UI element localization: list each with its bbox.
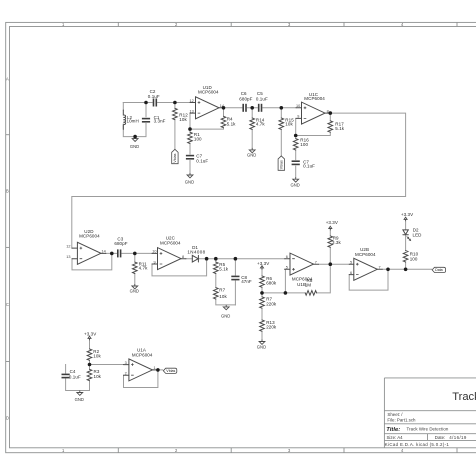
svg-text:File: Part1.sch: File: Part1.sch: [387, 417, 416, 422]
svg-text:10k: 10k: [179, 117, 187, 122]
svg-text:220k: 220k: [266, 325, 277, 330]
svg-text:0.1uF: 0.1uF: [148, 94, 160, 99]
svg-text:GND: GND: [75, 397, 84, 402]
svg-text:MCP6004: MCP6004: [304, 96, 325, 101]
svg-text:9: 9: [154, 260, 156, 264]
svg-text:5: 5: [350, 261, 352, 265]
svg-text:Track Wire Detection: Track Wire Detection: [407, 427, 449, 432]
svg-text:+3.3V: +3.3V: [84, 332, 96, 337]
svg-text:12: 12: [66, 244, 70, 248]
svg-text:Track Wire Detection: Track Wire Detection: [452, 391, 476, 403]
svg-text:6: 6: [286, 255, 288, 259]
svg-text:Size: A4: Size: A4: [387, 435, 404, 440]
svg-text:10: 10: [296, 104, 300, 108]
svg-text:MCP6004: MCP6004: [355, 252, 376, 257]
svg-text:10mH: 10mH: [127, 119, 139, 124]
svg-text:680pF: 680pF: [114, 241, 127, 246]
svg-text:Data: Data: [435, 268, 443, 272]
svg-text:4.7k: 4.7k: [256, 122, 265, 127]
svg-text:MCP6004: MCP6004: [132, 353, 153, 358]
svg-text:14: 14: [220, 104, 224, 108]
svg-text:Vbias: Vbias: [173, 153, 177, 162]
svg-text:B: B: [6, 189, 9, 194]
svg-text:GND: GND: [247, 153, 256, 158]
svg-text:GND: GND: [221, 313, 230, 318]
svg-text:13: 13: [190, 109, 194, 113]
svg-text:0.1uF: 0.1uF: [256, 96, 268, 101]
svg-text:13: 13: [66, 255, 70, 259]
svg-text:8: 8: [327, 109, 329, 113]
svg-text:GND: GND: [257, 345, 266, 350]
svg-text:7: 7: [315, 261, 317, 265]
svg-text:5.1k: 5.1k: [219, 267, 228, 272]
svg-text:7: 7: [379, 266, 381, 270]
svg-text:1: 1: [154, 366, 156, 370]
svg-text:100: 100: [300, 142, 308, 147]
svg-text:9: 9: [297, 115, 299, 119]
svg-text:GND: GND: [130, 288, 139, 293]
svg-text:100: 100: [194, 136, 202, 141]
svg-text:Vbias: Vbias: [166, 369, 175, 373]
svg-text:3: 3: [125, 361, 127, 365]
svg-text:Title:: Title:: [386, 427, 400, 433]
svg-text:1: 1: [62, 448, 65, 453]
svg-text:+3.3V: +3.3V: [401, 212, 413, 217]
svg-text:R7: R7: [219, 288, 225, 293]
svg-text:3.3k: 3.3k: [332, 240, 341, 245]
svg-text:10k: 10k: [93, 354, 101, 359]
svg-text:GND: GND: [130, 144, 139, 149]
svg-text:2: 2: [125, 372, 127, 376]
svg-text:10k: 10k: [219, 294, 227, 299]
svg-text:5.1k: 5.1k: [335, 126, 344, 131]
svg-text:0.1uF: 0.1uF: [69, 374, 81, 379]
svg-text:D: D: [6, 416, 9, 421]
svg-text:10k: 10k: [94, 374, 102, 379]
svg-text:680k: 680k: [266, 280, 277, 285]
svg-text:2: 2: [175, 448, 178, 453]
svg-text:LED: LED: [413, 233, 423, 238]
svg-text:0.1uF: 0.1uF: [303, 164, 315, 169]
svg-text:5.1k: 5.1k: [227, 121, 236, 126]
svg-text:8: 8: [182, 255, 184, 259]
svg-text:+3.3V: +3.3V: [326, 220, 338, 225]
svg-text:1N4008: 1N4008: [187, 250, 205, 255]
svg-text:6: 6: [350, 271, 352, 275]
svg-text:Date:: Date:: [435, 435, 446, 440]
svg-text:4.7k: 4.7k: [139, 265, 148, 270]
svg-text:5: 5: [286, 266, 288, 270]
svg-text:4: 4: [401, 448, 404, 453]
svg-text:GND: GND: [291, 183, 300, 188]
svg-text:100: 100: [410, 257, 418, 262]
svg-text:680pF: 680pF: [239, 96, 252, 101]
svg-text:12: 12: [190, 99, 194, 103]
svg-text:Sheet: /: Sheet: /: [387, 412, 403, 417]
svg-text:4/16/19: 4/16/19: [449, 435, 467, 440]
svg-text:3.3nF: 3.3nF: [154, 119, 166, 124]
svg-text:MCP6004: MCP6004: [198, 89, 219, 94]
svg-text:0.1uF: 0.1uF: [196, 158, 208, 163]
svg-text:1M: 1M: [305, 283, 312, 288]
svg-text:14: 14: [102, 250, 106, 254]
svg-text:KiCad E.D.A. kicad (5.0.2)-1: KiCad E.D.A. kicad (5.0.2)-1: [385, 442, 450, 447]
svg-text:MCP6004: MCP6004: [79, 234, 100, 239]
svg-text:GND: GND: [185, 180, 194, 185]
svg-text:47nF: 47nF: [241, 279, 252, 284]
svg-text:MCP6004: MCP6004: [160, 241, 181, 246]
svg-text:3: 3: [288, 448, 291, 453]
svg-text:A: A: [6, 76, 9, 81]
svg-text:10k: 10k: [285, 122, 293, 127]
svg-text:10: 10: [152, 250, 156, 254]
svg-text:C: C: [6, 302, 9, 307]
svg-text:220k: 220k: [266, 301, 277, 306]
svg-text:+3.3V: +3.3V: [257, 261, 269, 266]
svg-text:Vbias: Vbias: [280, 160, 284, 169]
